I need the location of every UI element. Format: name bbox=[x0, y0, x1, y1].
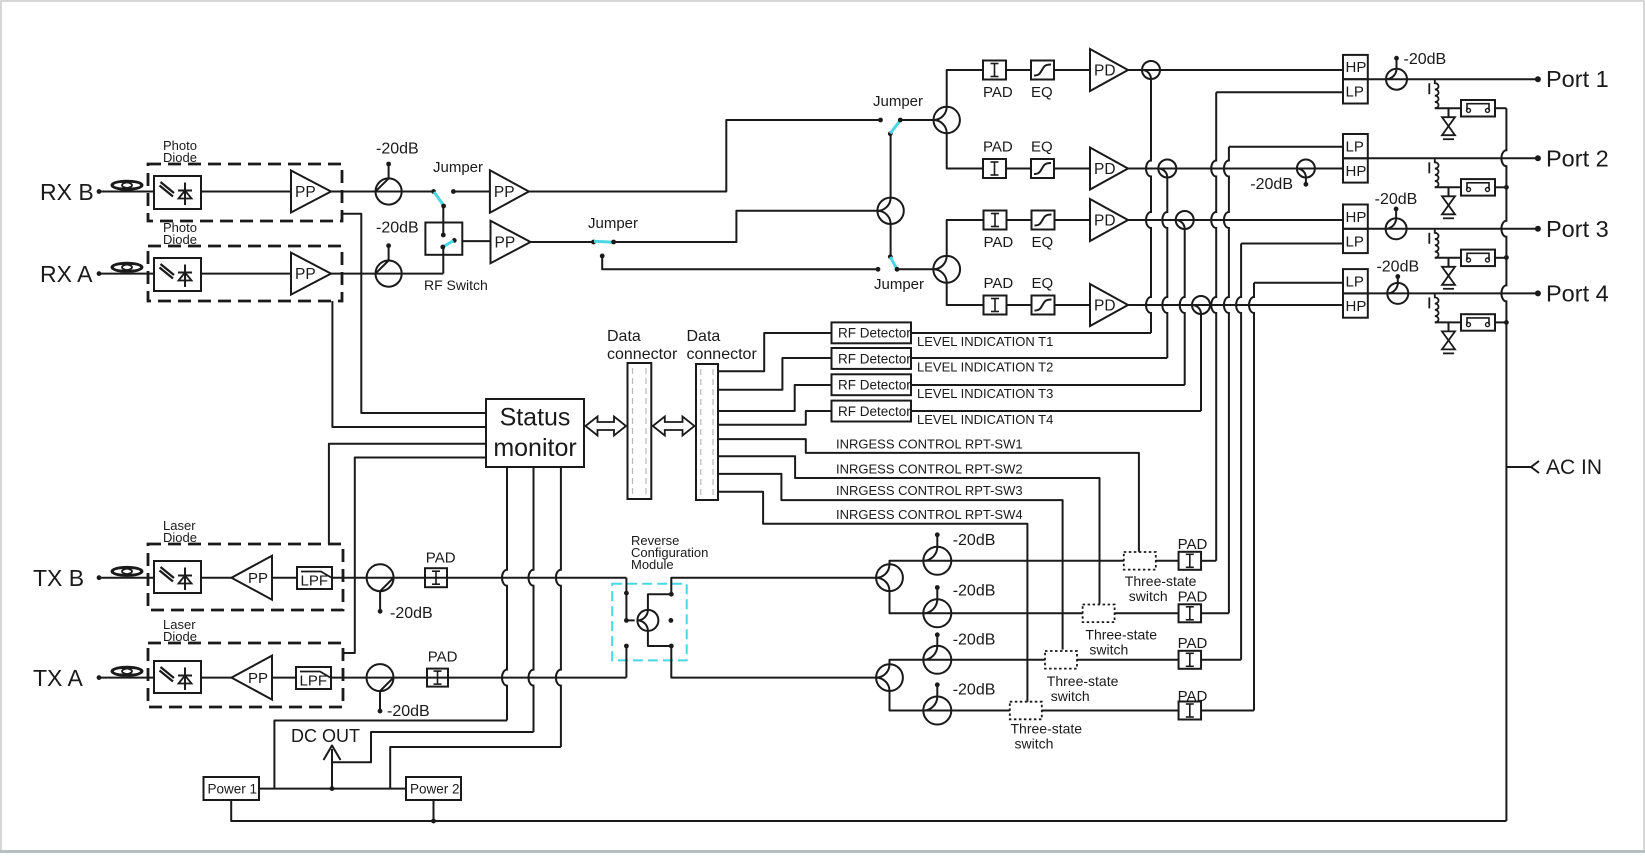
svg-text:Power 1: Power 1 bbox=[208, 782, 258, 797]
svg-text:LEVEL INDICATION T3: LEVEL INDICATION T3 bbox=[917, 386, 1053, 401]
svg-text:Three-state: Three-state bbox=[1011, 721, 1083, 737]
svg-text:EQ: EQ bbox=[1032, 275, 1054, 292]
svg-text:TX A: TX A bbox=[33, 665, 84, 691]
svg-text:switch: switch bbox=[1015, 736, 1054, 752]
svg-text:PP: PP bbox=[495, 235, 516, 252]
svg-text:LEVEL INDICATION T1: LEVEL INDICATION T1 bbox=[917, 334, 1053, 349]
svg-text:Port 4: Port 4 bbox=[1546, 280, 1609, 306]
svg-text:Three-state: Three-state bbox=[1085, 627, 1157, 643]
svg-text:PAD: PAD bbox=[984, 275, 1014, 292]
svg-text:EQ: EQ bbox=[1032, 234, 1054, 251]
svg-text:LEVEL INDICATION T2: LEVEL INDICATION T2 bbox=[917, 360, 1053, 375]
svg-text:EQ: EQ bbox=[1031, 84, 1053, 101]
svg-text:PAD: PAD bbox=[983, 139, 1013, 156]
svg-text:Jumper: Jumper bbox=[433, 159, 483, 176]
svg-text:PP: PP bbox=[248, 670, 268, 687]
svg-text:PAD: PAD bbox=[1178, 536, 1208, 553]
svg-text:-20dB: -20dB bbox=[376, 220, 419, 237]
svg-text:PP: PP bbox=[295, 184, 316, 201]
svg-text:LEVEL INDICATION T4: LEVEL INDICATION T4 bbox=[917, 412, 1053, 427]
svg-text:-20dB: -20dB bbox=[376, 141, 419, 158]
svg-text:PAD: PAD bbox=[1178, 635, 1208, 652]
svg-text:-20dB: -20dB bbox=[1250, 176, 1293, 193]
svg-text:LP: LP bbox=[1346, 84, 1364, 101]
svg-text:PAD: PAD bbox=[983, 84, 1013, 101]
svg-text:LP: LP bbox=[1346, 138, 1364, 155]
svg-text:RF Detector: RF Detector bbox=[838, 351, 911, 366]
svg-text:switch: switch bbox=[1051, 688, 1090, 704]
svg-text:-20dB: -20dB bbox=[1376, 259, 1419, 276]
svg-text:LP: LP bbox=[1346, 233, 1364, 250]
svg-text:PAD: PAD bbox=[428, 649, 458, 666]
svg-text:Data: Data bbox=[607, 328, 641, 345]
svg-text:HP: HP bbox=[1346, 59, 1367, 76]
svg-text:PP: PP bbox=[295, 266, 316, 283]
svg-text:INRGESS CONTROL RPT-SW1: INRGESS CONTROL RPT-SW1 bbox=[836, 437, 1023, 452]
svg-text:RF Detector: RF Detector bbox=[838, 404, 911, 419]
svg-text:-20dB: -20dB bbox=[953, 632, 996, 649]
svg-text:PD: PD bbox=[1094, 63, 1116, 80]
svg-text:RF Switch: RF Switch bbox=[424, 277, 488, 293]
svg-text:Port 3: Port 3 bbox=[1546, 216, 1609, 242]
svg-text:Port 1: Port 1 bbox=[1546, 66, 1609, 92]
svg-text:Jumper: Jumper bbox=[588, 215, 638, 232]
svg-text:Diode: Diode bbox=[163, 232, 197, 247]
svg-text:TX B: TX B bbox=[33, 565, 84, 591]
svg-text:-20dB: -20dB bbox=[390, 605, 433, 622]
svg-text:DC OUT: DC OUT bbox=[291, 726, 360, 746]
svg-text:Jumper: Jumper bbox=[873, 93, 923, 110]
svg-text:Jumper: Jumper bbox=[874, 276, 924, 293]
svg-text:PAD: PAD bbox=[1178, 688, 1208, 705]
svg-text:monitor: monitor bbox=[493, 434, 576, 462]
svg-text:switch: switch bbox=[1089, 642, 1128, 658]
svg-text:Power 2: Power 2 bbox=[410, 782, 460, 797]
svg-text:switch: switch bbox=[1129, 588, 1168, 604]
svg-text:Three-state: Three-state bbox=[1047, 673, 1119, 689]
svg-text:INRGESS CONTROL RPT-SW3: INRGESS CONTROL RPT-SW3 bbox=[836, 483, 1023, 498]
svg-text:Diode: Diode bbox=[163, 629, 197, 644]
svg-text:-20dB: -20dB bbox=[387, 703, 430, 720]
svg-text:RF Detector: RF Detector bbox=[838, 378, 911, 393]
svg-text:PD: PD bbox=[1094, 161, 1116, 178]
svg-text:RX A: RX A bbox=[40, 261, 93, 287]
svg-text:Module: Module bbox=[631, 557, 674, 572]
svg-text:LPF: LPF bbox=[301, 573, 329, 590]
svg-text:INRGESS CONTROL RPT-SW2: INRGESS CONTROL RPT-SW2 bbox=[836, 462, 1023, 477]
svg-text:PP: PP bbox=[248, 570, 268, 587]
svg-text:PAD: PAD bbox=[1178, 589, 1208, 606]
svg-text:PP: PP bbox=[494, 184, 515, 201]
svg-text:Port 2: Port 2 bbox=[1546, 145, 1609, 171]
svg-text:Diode: Diode bbox=[163, 530, 197, 545]
svg-text:-20dB: -20dB bbox=[1375, 191, 1418, 208]
svg-text:Diode: Diode bbox=[163, 150, 197, 165]
svg-text:AC IN: AC IN bbox=[1546, 456, 1602, 479]
svg-text:connector: connector bbox=[607, 346, 678, 363]
svg-text:PAD: PAD bbox=[426, 550, 456, 567]
svg-text:Three-state: Three-state bbox=[1125, 573, 1197, 589]
svg-text:LP: LP bbox=[1346, 273, 1364, 290]
svg-text:HP: HP bbox=[1346, 298, 1367, 315]
svg-text:INRGESS CONTROL RPT-SW4: INRGESS CONTROL RPT-SW4 bbox=[836, 507, 1023, 522]
svg-text:Status: Status bbox=[500, 404, 571, 432]
svg-text:Data: Data bbox=[687, 328, 721, 345]
svg-text:PD: PD bbox=[1094, 298, 1116, 315]
svg-text:HP: HP bbox=[1346, 163, 1367, 180]
svg-text:-20dB: -20dB bbox=[953, 532, 996, 549]
svg-text:HP: HP bbox=[1346, 209, 1367, 226]
svg-text:-20dB: -20dB bbox=[953, 682, 996, 699]
svg-text:PD: PD bbox=[1094, 213, 1116, 230]
svg-text:-20dB: -20dB bbox=[953, 583, 996, 600]
svg-text:LPF: LPF bbox=[300, 673, 328, 690]
svg-text:RX B: RX B bbox=[40, 179, 94, 205]
svg-text:-20dB: -20dB bbox=[1404, 51, 1447, 68]
svg-text:RF Detector: RF Detector bbox=[838, 326, 911, 341]
svg-text:PAD: PAD bbox=[984, 234, 1014, 251]
svg-text:EQ: EQ bbox=[1031, 139, 1053, 156]
svg-text:connector: connector bbox=[687, 346, 758, 363]
